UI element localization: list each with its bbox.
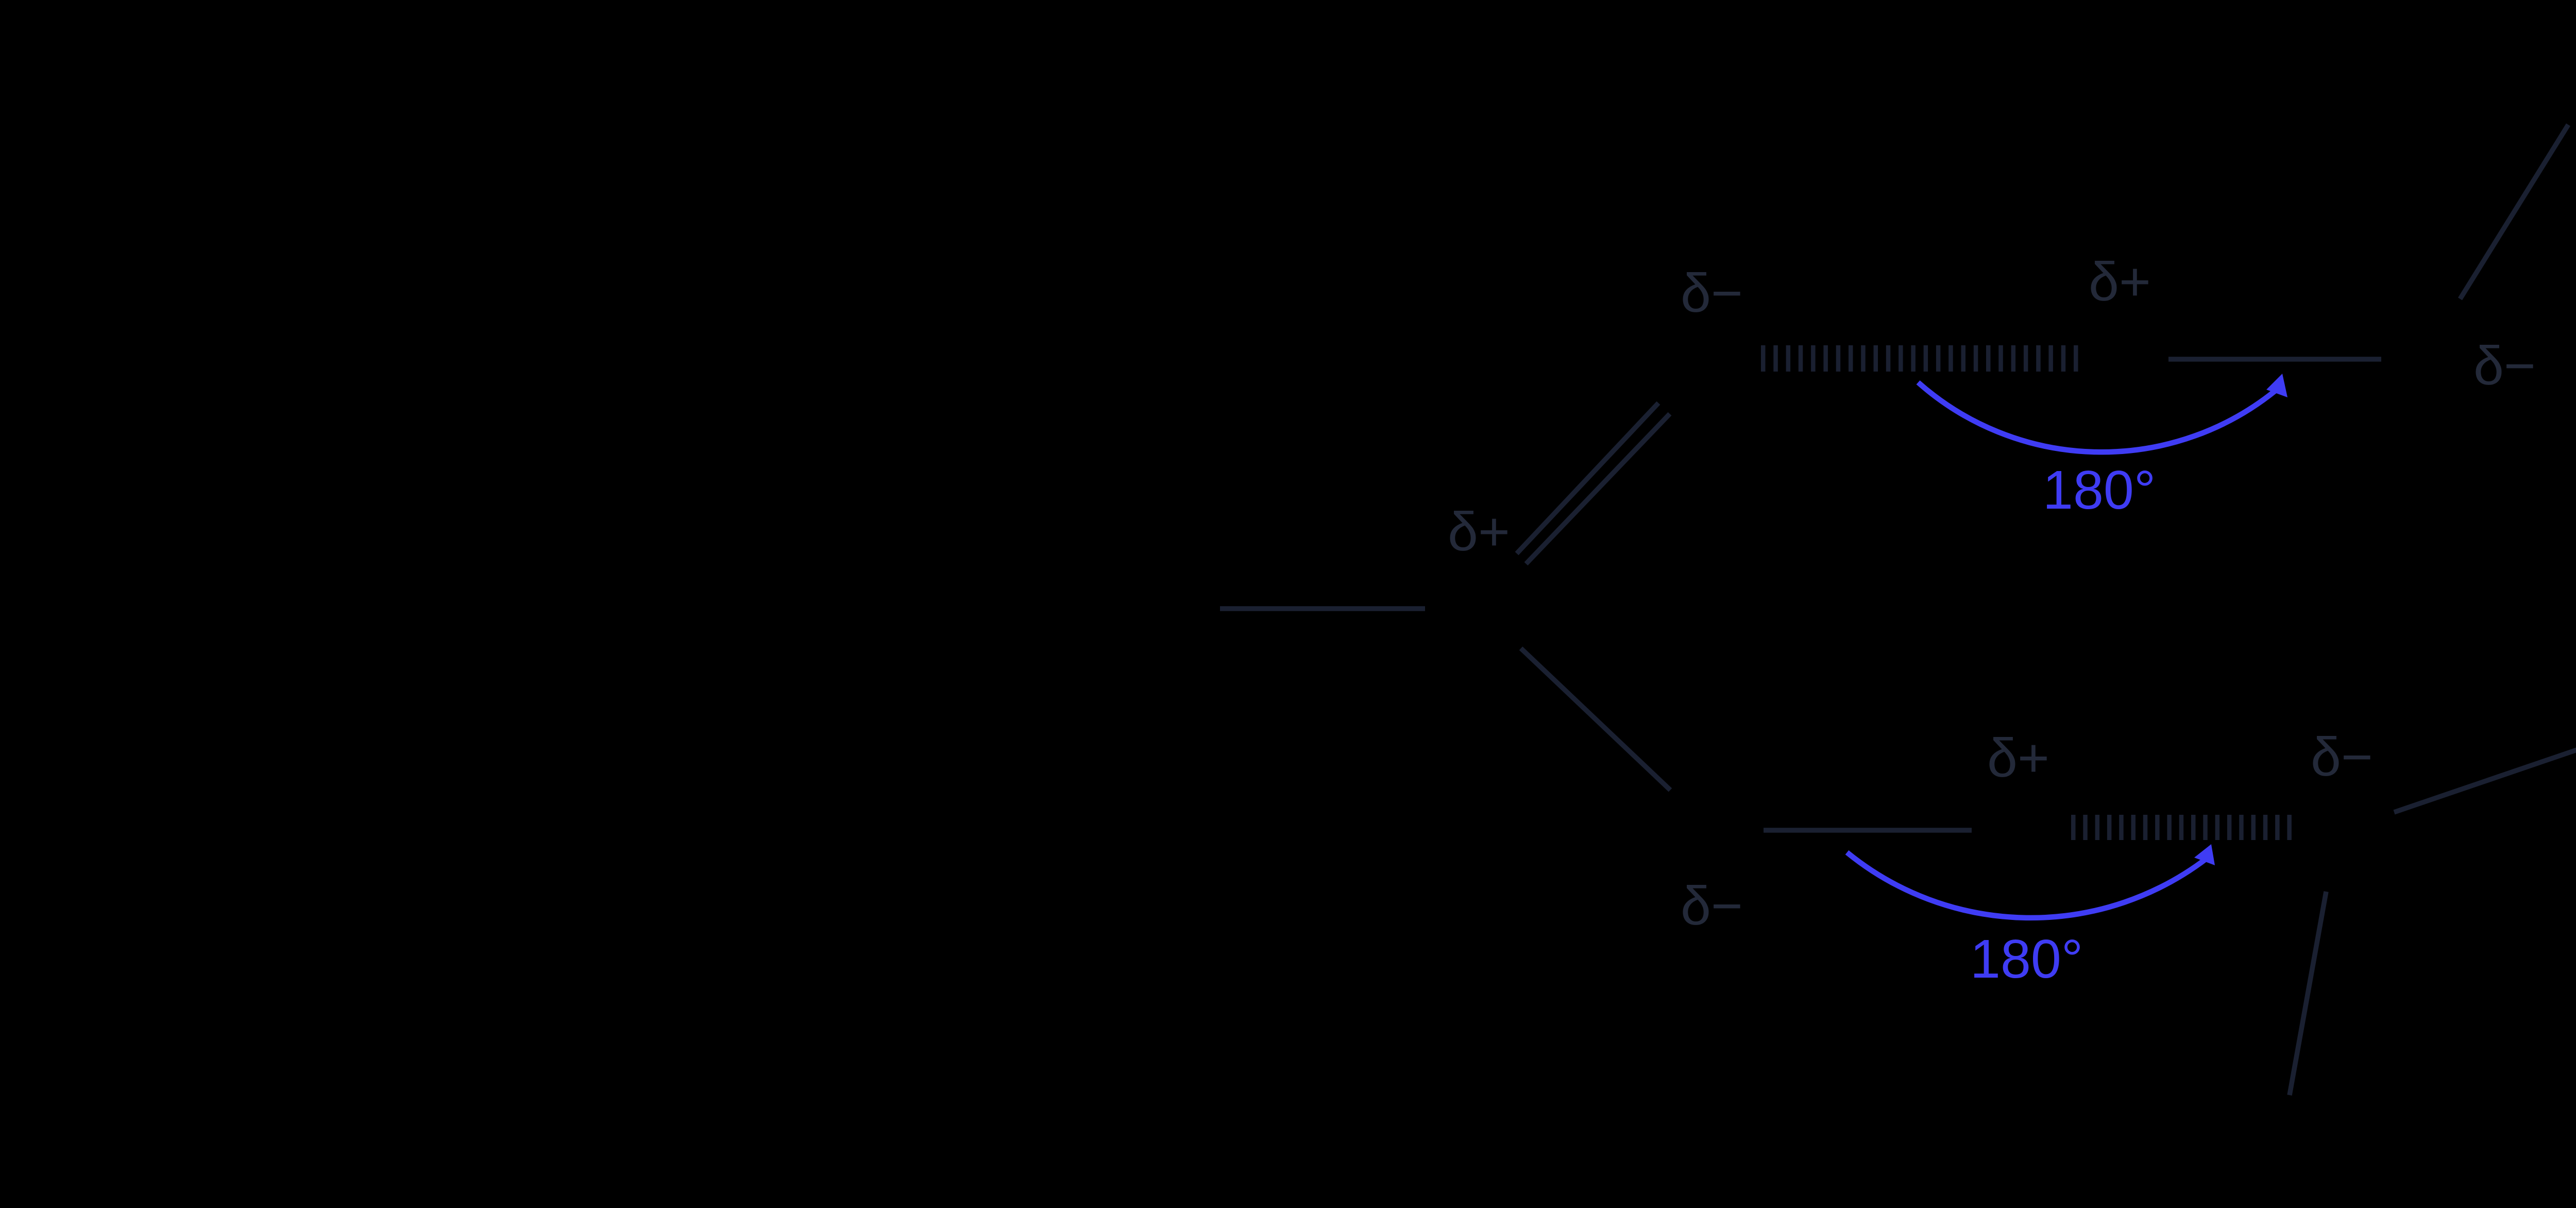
svg-text:δ+: δ+ <box>1448 501 1510 562</box>
svg-text:δ+: δ+ <box>2089 251 2151 312</box>
svg-text:δ−: δ− <box>2473 335 2536 396</box>
svg-text:180°: 180° <box>1970 929 2083 989</box>
svg-text:δ+: δ+ <box>1987 728 2049 788</box>
svg-text:δ−: δ− <box>2311 727 2373 787</box>
svg-text:δ−: δ− <box>1681 876 1743 936</box>
svg-text:δ−: δ− <box>1681 263 1743 324</box>
svg-text:180°: 180° <box>2043 460 2156 521</box>
